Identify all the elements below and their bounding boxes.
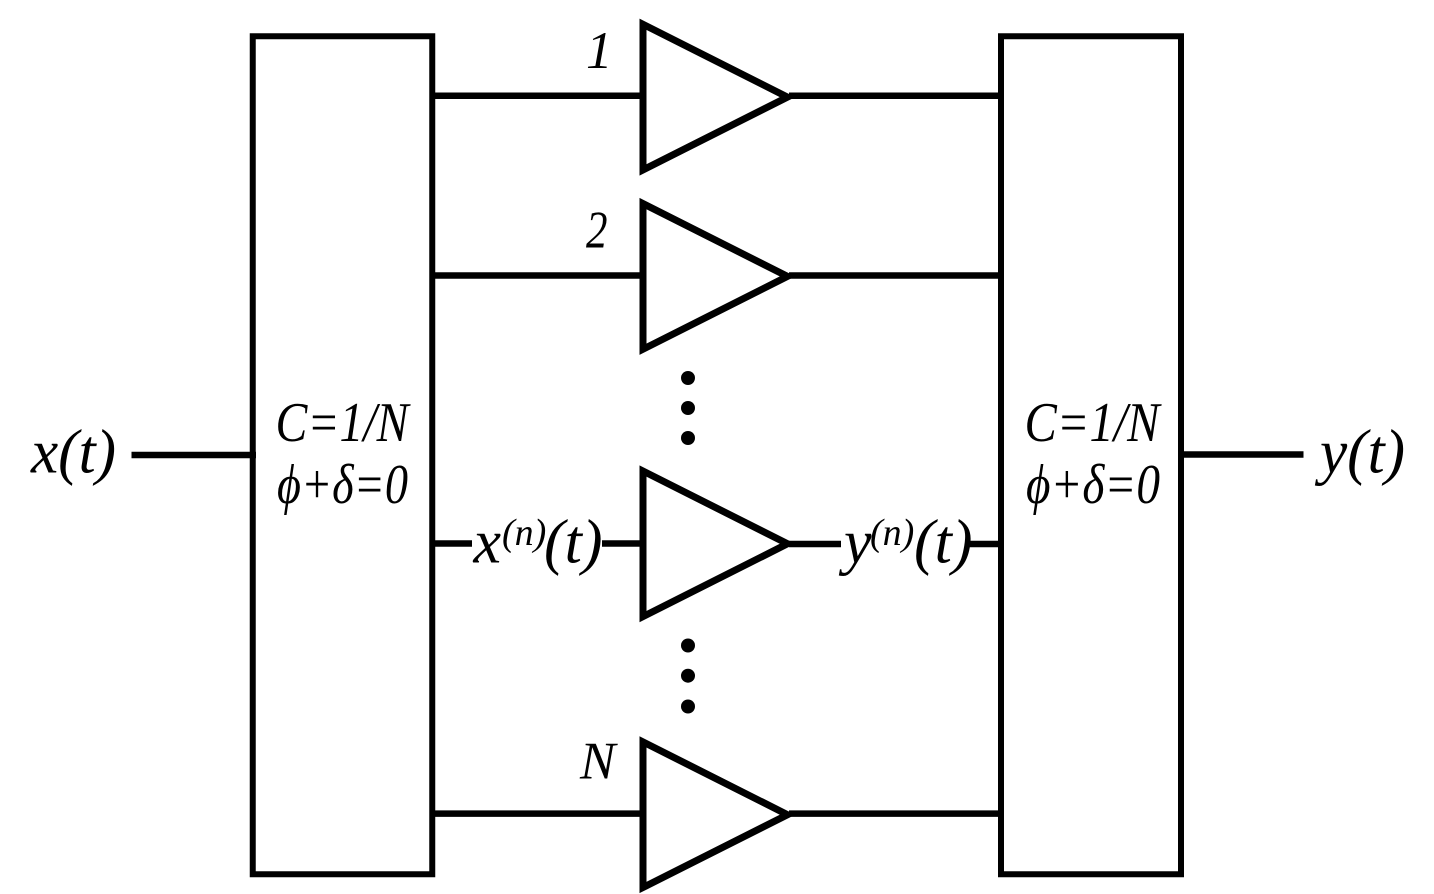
- svg-text:ϕ+δ=0: ϕ+δ=0: [1026, 454, 1160, 516]
- svg-text:(n): (n): [502, 512, 546, 554]
- wire y(n)(t) to combiner: [969, 541, 1005, 548]
- ellipsis dots upper: [681, 371, 695, 385]
- svg-text:(t): (t): [544, 509, 603, 577]
- svg-text:1: 1: [586, 22, 613, 80]
- ellipsis dots lower: [681, 639, 695, 653]
- wire combiner to y(t): [1179, 451, 1304, 458]
- wire amp 1 to combiner: [789, 93, 1004, 100]
- svg-text:x(t): x(t): [30, 419, 116, 487]
- combiner block U2: [1001, 36, 1181, 874]
- splitter block U1: [253, 36, 433, 874]
- wire splitter to amp 2: [430, 272, 646, 279]
- wire splitter to amp N: [430, 810, 646, 817]
- wire splitter to amp 1: [430, 93, 646, 100]
- wire amp n to y(n)(t): [789, 541, 841, 548]
- amplifier A2: [643, 204, 788, 350]
- amplifier AN: [643, 742, 788, 888]
- svg-text:N: N: [579, 732, 618, 790]
- svg-text:C=1/N: C=1/N: [276, 392, 411, 454]
- amplifier An: [643, 471, 788, 617]
- svg-text:x: x: [473, 509, 502, 577]
- svg-text:y(t): y(t): [1314, 419, 1405, 487]
- svg-text:ϕ+δ=0: ϕ+δ=0: [277, 454, 408, 516]
- svg-text:2: 2: [586, 202, 608, 260]
- amplifier A1: [643, 24, 788, 170]
- svg-text:C=1/N: C=1/N: [1025, 392, 1162, 454]
- svg-text:(t): (t): [914, 509, 973, 577]
- wire amp 2 to combiner: [789, 272, 1004, 279]
- wire input x(t) to splitter: [132, 452, 257, 459]
- wire x(n)(t) to amp n: [602, 540, 646, 547]
- svg-text:(n): (n): [870, 512, 914, 554]
- svg-text:y: y: [838, 509, 872, 577]
- wire amp N to combiner: [789, 810, 1004, 817]
- wire splitter stub to x(n)(t): [430, 540, 472, 547]
